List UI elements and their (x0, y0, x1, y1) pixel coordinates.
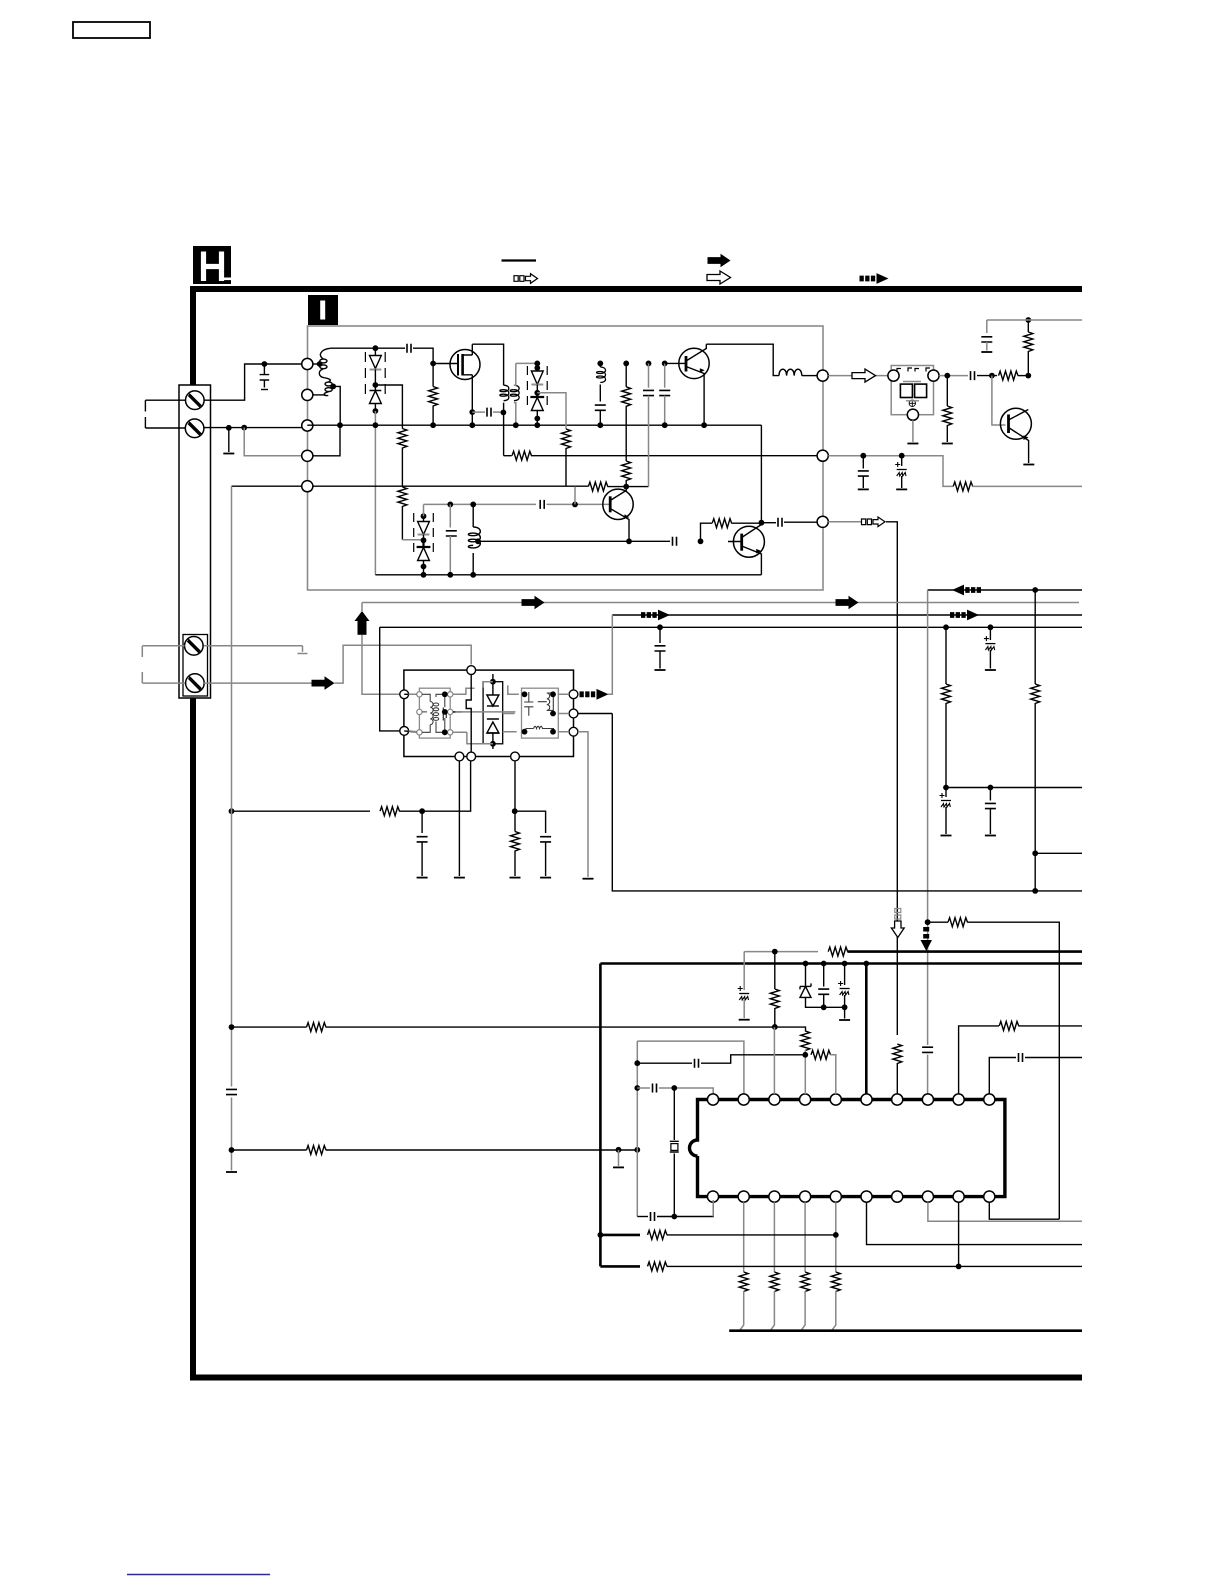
arrow on screw4 wire (312, 676, 335, 690)
resistor R733 (648, 1262, 668, 1271)
B+ drop with up arrow x362 (362, 603, 400, 695)
rail y627 (380, 626, 1082, 628)
IC supply drop x866 (863, 961, 869, 967)
node y891 (1032, 888, 1038, 894)
resistor R709 (622, 387, 631, 407)
pin10 cap C728 (989, 1058, 1016, 1095)
resistor R710 (712, 519, 732, 528)
bot pin8 wire (928, 1202, 1082, 1221)
photocoupler D705 body (891, 366, 933, 415)
dashed arrow y615 left (641, 610, 670, 621)
sub-block pins (417, 692, 422, 697)
wire gate (433, 363, 458, 365)
resistor R717 x946 (943, 624, 949, 630)
link to zener pair D703 (402, 539, 423, 541)
hot-block I boundary box (308, 326, 824, 590)
feedback tap wire (537, 393, 566, 429)
aux wire to zener (516, 362, 538, 364)
terminal x231 (226, 1171, 237, 1173)
wire loop pin4 left (244, 428, 302, 456)
drive wire y541 (478, 540, 670, 542)
filter transformer sub-block (419, 688, 450, 738)
dashed arrow y615 right (950, 610, 979, 621)
resistor R728 (739, 1272, 748, 1292)
IC pin bot3 (769, 1191, 780, 1202)
bot pin1 osc link handled above (712, 1200, 714, 1217)
wire pin-right1 to x612 (608, 615, 613, 694)
cap C720 (515, 811, 546, 833)
electrolytic C716 (945, 788, 947, 798)
line-filter choke winding A (313, 348, 375, 378)
lead stub 4 (142, 672, 185, 683)
arrow solid top (708, 254, 731, 268)
osc loop top to pin2 (637, 1041, 744, 1094)
snubber cap C703 (472, 411, 485, 413)
series cap C705 (540, 500, 544, 509)
hollow arrow feed (852, 369, 876, 382)
IC pin bot5 (830, 1191, 841, 1202)
pin5 resistor R725 (811, 1050, 831, 1059)
connector arrow small top (514, 274, 538, 284)
IC pin top3 (769, 1094, 780, 1105)
IC pin bot8 (922, 1191, 933, 1202)
output cap C710 wire to pin (761, 522, 776, 524)
node x928 (925, 919, 931, 925)
transistor Q703 (679, 344, 709, 425)
wire pin-right2 (578, 713, 612, 715)
arrow hollow top (707, 271, 731, 284)
feedback drop line (886, 522, 897, 1035)
zener tail to ground rail (374, 411, 376, 575)
rail y615 (612, 614, 1082, 616)
hot-block output pin 2 (817, 450, 828, 461)
wire rail loop to pin4 (313, 425, 340, 456)
pin3 feed (773, 1027, 775, 1094)
arrow on B+ rail right (836, 596, 859, 610)
photocoupler pin right (928, 370, 939, 381)
IC pin bot6 (861, 1191, 872, 1202)
cap C722 (821, 961, 827, 967)
section label I (308, 295, 338, 325)
feedback wire from pin3 (828, 521, 861, 523)
rail node at choke (337, 422, 343, 428)
terminal block TB2 inner body (183, 635, 208, 697)
footer blue underline (127, 1574, 270, 1576)
standby supply vertical x928 (927, 590, 929, 1094)
cap C718 (989, 788, 991, 801)
bot pin10 wire (989, 1202, 1059, 1219)
connector pin 5 (302, 481, 313, 492)
sense wire from pin2 (828, 456, 953, 487)
wire screw2 to pin3 (204, 427, 302, 429)
relay pin-right1 dashed arrow (580, 689, 609, 700)
resistor R731 (831, 1272, 840, 1292)
base inductor L702 (472, 504, 474, 527)
resistor R706 (588, 482, 608, 491)
hot-block output pin 1 (817, 370, 828, 381)
relay pin-bottom1 lead (458, 761, 460, 876)
supply rail y951 (744, 951, 818, 953)
filter transformer windings (422, 694, 446, 732)
screw terminal 1 (186, 391, 205, 410)
base resistor R712 (999, 371, 1019, 380)
arrow on B+ rail (522, 596, 545, 610)
pin8 series cap C727 (922, 1047, 933, 1052)
resistor R714 (953, 482, 973, 491)
wire y853 (1035, 852, 1082, 854)
collector rail to output (706, 344, 779, 375)
resistor R705 (562, 429, 571, 449)
bot pin9 wire (958, 1202, 960, 1266)
relay unit pin right3 (569, 727, 578, 736)
mute line y1234 (598, 1232, 604, 1238)
relay unit pin right2 (569, 709, 578, 718)
wire y787 (946, 787, 1082, 789)
cap C726 (651, 1212, 655, 1221)
source node (469, 409, 475, 415)
emitter terminal (1023, 464, 1034, 466)
photocoupler pin left (888, 370, 899, 381)
resistor R721 (307, 1146, 327, 1155)
base feed of Q705 (992, 376, 1006, 425)
chassis earth stub (226, 425, 232, 431)
node y1150 (229, 1147, 235, 1153)
series cap C711 (971, 371, 975, 380)
resistor R730 (801, 1272, 810, 1292)
gate-source resistor R704 (432, 364, 434, 387)
series cap in x231 (226, 1089, 237, 1094)
base feed wire y486 (232, 485, 589, 487)
snubber branch resistor R702 (375, 385, 402, 429)
filter cap C706 (449, 504, 451, 527)
cap C719 (421, 811, 423, 833)
relay unit pin bottom1 (455, 752, 464, 761)
hot-block output pin 3 (817, 516, 828, 527)
zener D706 (803, 961, 809, 967)
left sense vertical x231 (231, 486, 233, 1170)
electrolytic C717 (989, 627, 991, 640)
resistor R732 (648, 1230, 668, 1239)
feedback resistor R723 (772, 949, 778, 955)
snubber resistor R703 (398, 487, 407, 507)
connector pin 3 (302, 420, 313, 431)
bot pin6 wire (867, 1202, 1083, 1244)
MOSFET Q701 (450, 344, 480, 412)
IC pin top1 (707, 1094, 718, 1105)
wire y922 (928, 921, 948, 923)
IC pin top5 (830, 1094, 841, 1105)
hollow dashed arrow (862, 517, 886, 527)
filter cap C712 (986, 320, 988, 333)
node y590 (1032, 587, 1038, 593)
ceramic resonator X701 (673, 1088, 675, 1140)
resistor R716 x1035 (1034, 590, 1036, 684)
terminal block TB1 body (179, 385, 211, 698)
resistor R715 (948, 918, 968, 927)
relay unit pin bottom3 (511, 752, 520, 761)
resistor R718 (380, 807, 400, 816)
screw terminal 3 (185, 637, 204, 656)
gate series cap C702 (375, 347, 405, 349)
IC701 body (690, 1100, 1005, 1197)
node C718 (988, 785, 994, 791)
output choke L704 (779, 369, 817, 375)
resistor R719 (511, 832, 520, 852)
lead stub 3 (142, 646, 184, 657)
cap C715 (657, 624, 663, 630)
pin9 loop resistor R727 (959, 1026, 999, 1094)
pin7 resistor R726 (893, 1044, 902, 1064)
title box top-left (73, 22, 150, 38)
electrolytic C721 (743, 952, 745, 990)
osc loop vertical x637 (636, 1041, 638, 1216)
node y1063 (634, 1060, 640, 1066)
VCC drop thick x600 (599, 964, 602, 1267)
start winding wire y455 (504, 455, 512, 457)
screw terminal 4 (186, 674, 205, 693)
bot pins 2-5 dividers to bus (743, 1202, 745, 1272)
up arrow x362 (355, 611, 370, 635)
photocoupler internals (897, 368, 930, 406)
VCC rail thick y963 (600, 962, 1082, 965)
emitter follower Q704 (728, 525, 764, 575)
secondary wire from pin1 (828, 375, 890, 377)
dashed arrow left y590 (952, 585, 981, 596)
IC pin bot9 (953, 1191, 964, 1202)
IC pin top8 (922, 1094, 933, 1105)
IC pin top10 (984, 1094, 995, 1105)
photocoupler emitter stub (912, 420, 914, 442)
IC pin bot7 (892, 1191, 903, 1202)
zener pair D703 (dashed box) (414, 513, 434, 575)
AC lead N (145, 417, 185, 428)
collector feed from rail (760, 425, 762, 523)
relay unit pin left2 (400, 727, 409, 736)
transformer T701 primary (500, 385, 509, 401)
IC pin bot4 (800, 1191, 811, 1202)
screw4 wire to arrow (204, 645, 471, 683)
aux rectifier branch L703 C704 (597, 361, 603, 367)
rail y590 return (928, 589, 1082, 591)
zener top to bias wire (423, 504, 425, 516)
pin4 resistor R724 (801, 1031, 810, 1051)
bottom osc wire y1216 (637, 1216, 648, 1218)
hot ground rail (375, 574, 761, 576)
absorber diodes (487, 674, 499, 749)
relay/filter unit body (404, 670, 574, 756)
section label H (193, 246, 231, 284)
relay pin-bottom3 chain (514, 761, 516, 832)
sense row y811 (229, 808, 235, 814)
drop x379 to relay (380, 627, 400, 731)
IC pin bot1 (707, 1191, 718, 1202)
collector resistor R708 (625, 480, 627, 487)
zener pair D702 (dashed box) (527, 363, 547, 428)
relay internal wires (409, 682, 569, 744)
node C717 (988, 624, 994, 630)
surge zener pair D701 (dashed box) (365, 345, 385, 414)
transistor Q705 (1000, 408, 1031, 463)
relay unit pin left1 (400, 690, 409, 699)
relay unit pin bottom2 (467, 752, 476, 761)
line-filter choke winding B (313, 378, 340, 426)
node on X-cap (262, 361, 268, 367)
screw terminal 2 (185, 419, 204, 438)
X-capacitor C701 (260, 364, 270, 390)
driver bias wire y504 (424, 503, 537, 505)
node y1027 (229, 1024, 235, 1030)
resistor R720 (307, 1023, 327, 1032)
dashed down arrow x928 (921, 927, 933, 951)
resistor R729 (770, 1272, 779, 1292)
page border (thick) (193, 289, 1082, 1378)
supply wire y320 (987, 319, 1082, 321)
IC pin bot2 (738, 1191, 749, 1202)
B+ rail y602 (362, 602, 1079, 604)
wire opto to cap (939, 375, 968, 377)
resonator sub-block (522, 688, 559, 738)
connector pin 4 (302, 450, 313, 461)
ground bus (729, 1329, 1082, 1332)
node y853 (1032, 850, 1038, 856)
AC lead L (145, 400, 185, 411)
wire y1027 (232, 1026, 307, 1028)
stub terminal y1150 (618, 1150, 620, 1166)
electrolytic C723 (842, 961, 848, 967)
arrow dashed top (860, 273, 889, 284)
bias resistor R707 (574, 487, 576, 505)
return loop y891 (612, 714, 1082, 891)
screw3 chassis wire (204, 646, 303, 652)
cap C707 (646, 361, 652, 367)
IC pin top7 (892, 1094, 903, 1105)
IC pin top6 (861, 1094, 872, 1105)
relay unit pin top (467, 666, 476, 675)
IC pin top4 (800, 1094, 811, 1105)
photocoupler pin bottom (907, 409, 918, 420)
wire y1150 (232, 1149, 307, 1151)
node y1088 (634, 1085, 640, 1091)
cap C724 (637, 1062, 692, 1064)
hollow down arrow x898 (891, 909, 904, 938)
cap C708 (662, 361, 668, 367)
resonator internals (524, 692, 554, 729)
transformer T701 aux winding (510, 385, 519, 401)
connector pin 1 (302, 358, 313, 369)
wire screw1 to pin1 (204, 364, 302, 400)
top margin reference line (502, 259, 537, 261)
cap C713 (862, 456, 864, 469)
thick mains lead through terminal blocks (190, 291, 196, 1377)
resistor R722 (828, 947, 848, 956)
gate node (430, 361, 436, 367)
IC pin top9 (953, 1094, 964, 1105)
primary rail (neutral) (307, 424, 761, 426)
surge absorber sub-block (483, 682, 503, 744)
series cap C709 (673, 537, 677, 546)
bleeder resistor R711 (946, 376, 948, 406)
driver transistor Q702 (603, 487, 633, 542)
drain link to transformer (472, 344, 503, 385)
node y787 (943, 785, 949, 791)
connector pin 2 (302, 389, 313, 400)
IC pin top2 (738, 1094, 749, 1105)
collector resistor R713 (1027, 351, 1029, 376)
mute line y1266 (600, 1265, 640, 1268)
relay coil feed vertical (466, 675, 471, 753)
base network of Q704 (698, 538, 704, 544)
relay unit pin right1 (569, 690, 578, 699)
wire pin-right3 ground (578, 732, 588, 877)
IC pin bot10 (984, 1191, 995, 1202)
electrolytic C714 (901, 456, 903, 466)
wire to Q703 base (665, 362, 686, 364)
node loop to pin4 (241, 425, 247, 431)
cap C725 (637, 1087, 650, 1089)
